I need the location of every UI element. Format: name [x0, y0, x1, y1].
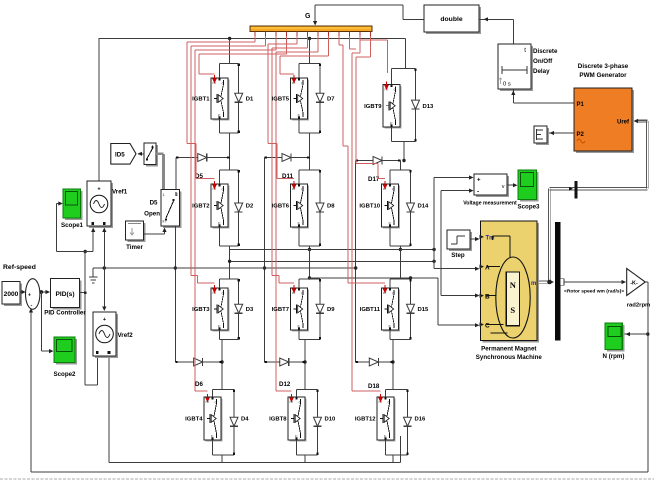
svg-text:A: A	[485, 265, 490, 272]
svg-text:Uref: Uref	[617, 120, 630, 126]
svg-text:Synchronous Machine: Synchronous Machine	[476, 354, 543, 361]
svg-text:C: C	[392, 187, 395, 192]
svg-text:N: N	[510, 280, 517, 290]
svg-text:E: E	[298, 324, 301, 329]
svg-text:0 s: 0 s	[503, 82, 511, 88]
svg-text:B: B	[485, 294, 490, 301]
svg-text:Ref-speed: Ref-speed	[3, 264, 36, 271]
svg-text:Vref2: Vref2	[118, 332, 134, 339]
svg-text:D14: D14	[418, 204, 430, 210]
svg-text:N (rpm): N (rpm)	[603, 353, 625, 360]
svg-text:Scope1: Scope1	[61, 222, 84, 229]
svg-text:Open: Open	[144, 211, 160, 218]
svg-text:C: C	[222, 291, 225, 296]
svg-text:D8: D8	[327, 204, 335, 210]
svg-text:IGBT5: IGBT5	[272, 97, 290, 103]
svg-text:+: +	[97, 187, 100, 193]
svg-text:double: double	[440, 16, 462, 23]
svg-text:D10: D10	[325, 417, 337, 423]
svg-text:E: E	[389, 324, 392, 329]
svg-text:-K-: -K-	[630, 281, 638, 287]
svg-text:Discrete: Discrete	[533, 48, 558, 55]
svg-text:Delay: Delay	[533, 68, 550, 75]
svg-text:C: C	[388, 400, 391, 405]
svg-text:<Rotor speed wm (rad/s)>: <Rotor speed wm (rad/s)>	[564, 289, 624, 295]
svg-text:E: E	[389, 221, 392, 226]
svg-text:S: S	[510, 305, 515, 315]
svg-text:D1: D1	[246, 97, 254, 103]
svg-text:E: E	[390, 121, 393, 126]
svg-text:C: C	[301, 291, 304, 296]
svg-text:m: m	[531, 281, 536, 287]
svg-text:PID Controller: PID Controller	[44, 310, 86, 317]
svg-text:D6: D6	[195, 381, 203, 388]
svg-text:G: G	[305, 13, 311, 20]
svg-text:C: C	[299, 400, 302, 405]
svg-text:Scope2: Scope2	[53, 371, 76, 378]
svg-text:-: -	[477, 189, 479, 196]
svg-text:E: E	[298, 221, 301, 226]
svg-text:IGBT2: IGBT2	[192, 204, 210, 210]
svg-text:C: C	[215, 400, 218, 405]
svg-text:E: E	[298, 113, 301, 118]
svg-text:D2: D2	[246, 204, 254, 210]
svg-text:PID(s): PID(s)	[55, 291, 74, 298]
svg-text:+: +	[28, 293, 31, 299]
svg-text:PWM Generator: PWM Generator	[579, 72, 627, 79]
svg-text:Scope3: Scope3	[517, 204, 540, 211]
svg-text:D18: D18	[368, 383, 380, 390]
svg-text:C: C	[485, 323, 490, 330]
svg-text:D13: D13	[423, 104, 435, 110]
svg-text:Voltage measurement: Voltage measurement	[463, 201, 517, 207]
svg-text:rad2rpm: rad2rpm	[627, 303, 651, 309]
svg-text:E: E	[211, 434, 214, 439]
svg-text:D5: D5	[150, 200, 158, 207]
svg-text:t: t	[524, 47, 526, 54]
svg-text:C: C	[222, 81, 225, 86]
svg-text:D16: D16	[415, 417, 427, 423]
svg-text:Discrete 3-phase: Discrete 3-phase	[578, 63, 629, 70]
svg-text:E: E	[218, 221, 221, 226]
svg-text:D3: D3	[246, 307, 254, 313]
svg-text:2000: 2000	[4, 291, 19, 298]
svg-text:IGBT7: IGBT7	[272, 307, 290, 313]
svg-text:D12: D12	[279, 381, 291, 388]
svg-text:IGBT9: IGBT9	[364, 104, 382, 110]
svg-text:P2: P2	[577, 132, 585, 138]
svg-text:P1: P1	[577, 102, 585, 108]
svg-text:IGBT10: IGBT10	[359, 204, 380, 210]
svg-text:Step: Step	[451, 252, 465, 259]
svg-text:IGBT1: IGBT1	[192, 97, 210, 103]
svg-text:C: C	[301, 187, 304, 192]
svg-text:C: C	[222, 187, 225, 192]
svg-text:IGBT4: IGBT4	[185, 417, 203, 423]
svg-text:IGBT6: IGBT6	[272, 204, 290, 210]
svg-text:Vref1: Vref1	[112, 189, 128, 196]
svg-text:IGBT3: IGBT3	[192, 307, 210, 313]
svg-text:E: E	[384, 434, 387, 439]
svg-text:+: +	[103, 317, 106, 323]
svg-text:C: C	[301, 81, 304, 86]
svg-text:E: E	[295, 434, 298, 439]
svg-text:E: E	[218, 113, 221, 118]
svg-text:IGBT12: IGBT12	[355, 417, 376, 423]
svg-text:C: C	[394, 87, 397, 92]
svg-text:E: E	[218, 324, 221, 329]
svg-text:Permanent Magnet: Permanent Magnet	[481, 346, 536, 353]
svg-text:v: v	[502, 184, 505, 190]
svg-text:ln: ln	[163, 219, 166, 224]
svg-text:D15: D15	[418, 307, 430, 313]
svg-text:Timer: Timer	[126, 244, 143, 251]
svg-text:IGBT8: IGBT8	[269, 417, 287, 423]
svg-text:D4: D4	[241, 417, 249, 423]
svg-text:D7: D7	[327, 97, 335, 103]
svg-text:IGBT11: IGBT11	[360, 307, 381, 313]
svg-text:-: -	[31, 303, 33, 309]
svg-text:C: C	[392, 291, 395, 296]
svg-text:D9: D9	[327, 307, 335, 313]
svg-text:ID5: ID5	[115, 152, 125, 159]
svg-text:On/Off: On/Off	[533, 58, 553, 65]
svg-text:+: +	[477, 178, 481, 184]
